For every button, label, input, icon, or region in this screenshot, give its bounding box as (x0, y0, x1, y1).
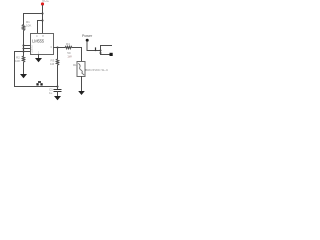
ground under C1 (54, 96, 61, 100)
node junction pin7 rail (23, 51, 25, 53)
svg-text:LM555: LM555 (32, 39, 45, 44)
power terminal dot (86, 39, 89, 42)
node junction pin2 rail (23, 45, 25, 47)
relay coil squiggle (79, 64, 84, 75)
wire R1 top lead (23, 14, 25, 25)
capacitor C1 plates (54, 90, 61, 92)
node junction contact lower (100, 52, 102, 54)
relay RL coil box (77, 62, 85, 77)
wire R4 to relay (72, 48, 82, 62)
svg-text:10K: 10K (15, 59, 20, 63)
svg-text:Power: Power (82, 34, 93, 38)
wire bottom rail (15, 86, 58, 88)
ground under relay (78, 91, 85, 95)
wire to pin 7 and left branch (15, 51, 31, 53)
wire relay contact pole (100, 46, 102, 55)
wire output pin 3 (54, 47, 66, 49)
wire R3 top lead (57, 48, 59, 60)
svg-text:BRD-5VDC SL-C: BRD-5VDC SL-C (85, 68, 109, 72)
node junction contact common (100, 50, 102, 52)
resistor R2 (22, 56, 24, 64)
wire VCC stem down to pin 8 (42, 6, 44, 34)
wire R2 bottom lead (23, 64, 25, 74)
svg-text:RL: RL (73, 63, 77, 67)
resistor R3 (56, 59, 58, 68)
wire branch to pin 4 (38, 21, 43, 34)
terminal square NO (110, 53, 113, 56)
pushbutton S1 (36, 81, 42, 85)
relay contact arm arrowhead (95, 48, 97, 51)
wire pin 1 to ground (38, 55, 40, 59)
node junction pin6 rail (23, 48, 25, 50)
svg-text:1W: 1W (67, 55, 72, 59)
node junction output/R3 (57, 47, 59, 49)
ground under pin 1 (35, 58, 42, 62)
node junction at (42.5,13.5) (42, 13, 44, 15)
wire C1 bottom lead (57, 92, 59, 97)
svg-text:10K: 10K (26, 24, 31, 28)
IC U1 LM555 body (31, 34, 54, 55)
node junction at (42.5,20.5) (42, 20, 44, 22)
wire left branch down (14, 52, 16, 87)
wire to pin 2 (24, 45, 31, 47)
resistor R1 (22, 25, 24, 32)
svg-text:R4: R4 (66, 42, 70, 46)
resistor R4 (horizontal) (65, 46, 72, 48)
ground under R2 (20, 74, 27, 78)
wire to pin 6 (24, 48, 31, 50)
wire R1 bottom to trigger rail (23, 31, 25, 56)
wire R3 bottom to C1 node (57, 68, 59, 90)
wire NO contact (101, 54, 111, 56)
svg-text:1u: 1u (49, 91, 53, 95)
power VCC terminal (red dot) (41, 2, 44, 5)
wire relay coil bottom to ground (81, 77, 83, 92)
node junction C1 top (57, 86, 59, 88)
wire NC contact (101, 45, 112, 47)
svg-text:1M: 1M (50, 62, 55, 66)
wire horizontal VCC rail to R1 (24, 13, 43, 15)
wire power to relay common (87, 42, 101, 51)
